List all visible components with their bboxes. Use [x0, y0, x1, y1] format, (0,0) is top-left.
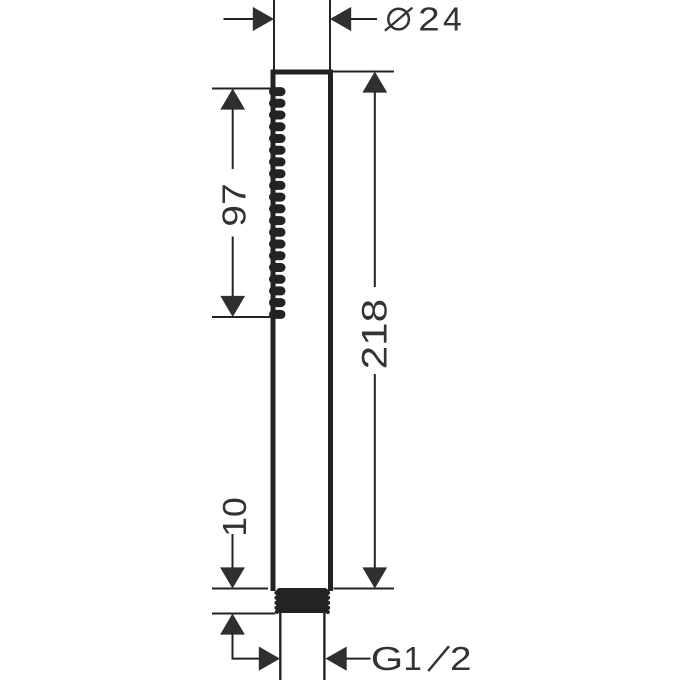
label G1/2	[371, 640, 472, 677]
label Ø24 : diameter symbol drawn as circle+slash	[385, 8, 413, 31]
arrow down (10, above nut)	[220, 567, 245, 588]
svg-text:97: 97	[215, 183, 252, 227]
svg-text:218: 218	[355, 299, 395, 370]
extension line 97-top	[212, 88, 272, 90]
svg-text:4: 4	[443, 1, 462, 38]
arrow up (218 top)	[362, 72, 387, 93]
dimension Ø24 tail line right	[351, 18, 377, 20]
svg-text:10: 10	[216, 497, 253, 537]
svg-text:2: 2	[450, 640, 472, 677]
extension line 218-top	[331, 71, 394, 73]
arrow down (97 bottom)	[220, 296, 245, 317]
arrow right-pointing at left edge (Ø24)	[253, 7, 274, 31]
shower body outline	[273, 72, 331, 591]
dimension 97 line upper	[232, 108, 234, 169]
dimension 218 line lower	[374, 374, 376, 568]
svg-text:1: 1	[404, 640, 422, 677]
extension line 10-bottom	[212, 613, 275, 615]
arrow up (10, below nut)	[220, 614, 245, 635]
nozzle strip (spray jets along left edge)	[269, 87, 286, 319]
arrow right-pointing (G1/2 left)	[259, 647, 280, 671]
extension line 97-bottom	[212, 316, 272, 318]
dimension 10 line upper	[232, 534, 234, 570]
arrow left-pointing (G1/2 right)	[326, 647, 347, 671]
svg-text:G: G	[371, 640, 404, 677]
extension line 10-top	[212, 588, 268, 590]
arrow left-pointing at right edge (Ø24)	[330, 7, 351, 31]
extension line 218-bottom	[334, 588, 395, 590]
dimension Ø24 tail line left	[224, 18, 254, 20]
dimension 218 line upper	[374, 91, 376, 287]
dimension G1/2 tail line right	[346, 658, 371, 660]
arrow up (97 top)	[220, 89, 245, 110]
G1/2 thread pipe right line (runs to image bottom)	[323, 613, 325, 680]
knurled connector nut (bottom, solid black)	[274, 588, 330, 614]
extension line top-left (body left edge, runs to image top)	[273, 0, 275, 70]
extension line top-right (body right edge, runs to image top)	[329, 0, 331, 70]
dimension 97 line lower	[232, 237, 234, 299]
label G1/2 slash	[428, 646, 449, 671]
svg-text:2: 2	[418, 1, 439, 38]
label Ø24 digits	[418, 1, 462, 38]
dimension 10 leader down to G1/2 line	[233, 633, 260, 659]
arrow down (218 bottom)	[362, 567, 387, 588]
G1/2 thread pipe left line (runs to image bottom)	[279, 613, 281, 680]
